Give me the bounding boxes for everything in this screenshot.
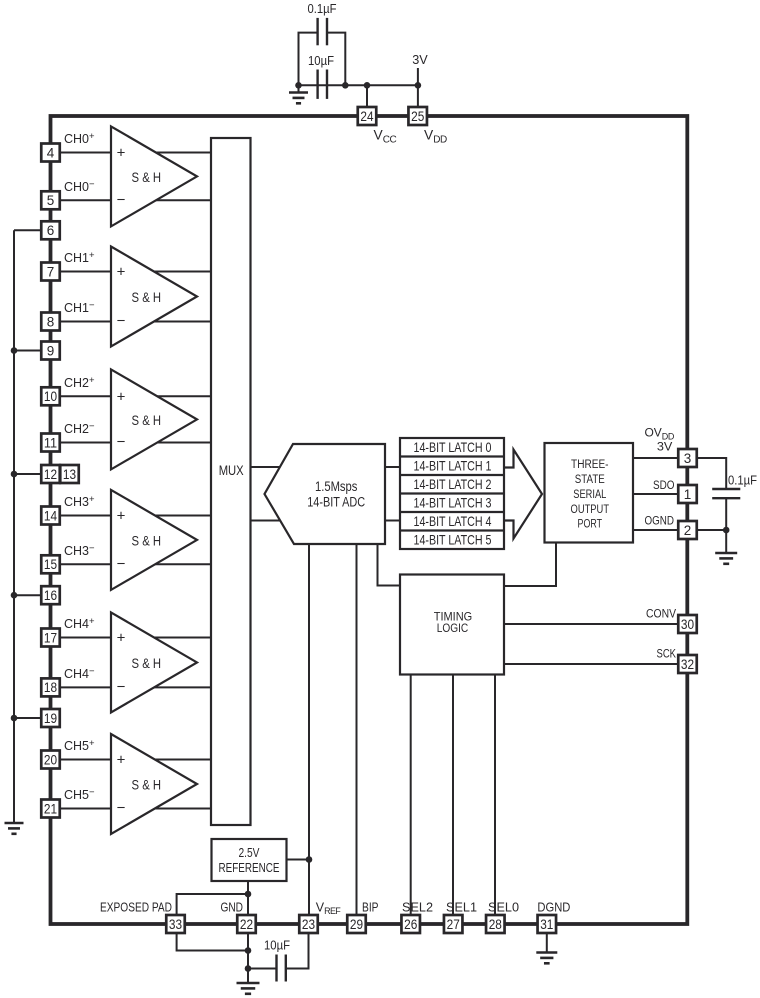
svg-text:13: 13 xyxy=(63,467,76,482)
pin 29 xyxy=(347,915,366,933)
svg-text:EXPOSED PAD: EXPOSED PAD xyxy=(100,901,172,915)
svg-text:14-BIT LATCH 1: 14-BIT LATCH 1 xyxy=(414,458,492,474)
node dot OGND-C3 xyxy=(723,527,730,534)
svg-text:9: 9 xyxy=(47,343,55,358)
MUX block xyxy=(211,138,251,825)
pin 31 xyxy=(538,915,557,933)
svg-text:3V: 3V xyxy=(657,440,673,454)
wire CH0+ output to MUX xyxy=(156,152,211,154)
svg-text:21: 21 xyxy=(44,801,57,816)
svg-text:2.5V: 2.5V xyxy=(239,845,260,860)
node dot VDD xyxy=(415,82,422,89)
svg-text:SEL2: SEL2 xyxy=(402,901,433,915)
wire exposed pad lower loop xyxy=(177,933,248,951)
svg-text:SERIAL: SERIAL xyxy=(573,487,606,501)
svg-text:6: 6 xyxy=(47,223,55,238)
svg-text:STATE: STATE xyxy=(575,472,605,486)
svg-text:25: 25 xyxy=(411,109,424,124)
14-bit latch register stack xyxy=(400,438,504,549)
wire CH1- output to MUX xyxy=(154,321,211,323)
wire rail stub to pin 16 xyxy=(14,594,42,596)
wire MUX to ADC lower xyxy=(251,520,281,522)
wire GND pin down to ground xyxy=(247,933,249,983)
svg-text:−: − xyxy=(117,679,126,696)
wire rail stub to pin 9 xyxy=(14,350,42,352)
wire CH5- input xyxy=(61,808,112,810)
svg-text:−: − xyxy=(117,556,126,573)
wire CH1+ input xyxy=(61,271,112,273)
bus arrow to serial port xyxy=(504,450,542,539)
pin 10 xyxy=(41,387,60,405)
pin 11 xyxy=(41,434,60,452)
svg-text:S & H: S & H xyxy=(132,412,162,428)
wire 0.1uF loop left+top xyxy=(299,33,318,86)
ground G5 (DGND) xyxy=(536,951,557,954)
pin 22 xyxy=(237,915,256,933)
pin 25 xyxy=(408,107,427,125)
wire ADC to BIP pin 29 xyxy=(356,544,358,915)
svg-text:29: 29 xyxy=(350,917,363,932)
node dot rail y=350.5 xyxy=(11,347,18,354)
wire CH3+ output to MUX xyxy=(155,515,211,517)
pin 17 xyxy=(41,629,60,647)
pin 24 xyxy=(358,107,377,125)
svg-text:S & H: S & H xyxy=(132,655,162,671)
svg-text:24: 24 xyxy=(360,109,374,124)
pin 26 xyxy=(401,915,420,933)
svg-text:+: + xyxy=(117,264,126,281)
wire CH2- output to MUX xyxy=(157,442,211,444)
wire CH1- input xyxy=(61,321,112,323)
svg-text:30: 30 xyxy=(681,617,694,632)
node dot ref-gnd loop xyxy=(245,891,252,898)
pin 28 xyxy=(486,915,505,933)
svg-text:14-BIT ADC: 14-BIT ADC xyxy=(307,495,365,510)
wire CH0- output to MUX xyxy=(156,199,211,201)
wire ADC to latch upper xyxy=(385,466,400,468)
svg-text:GND: GND xyxy=(221,901,244,915)
wire port to pin 2 xyxy=(633,529,678,531)
ground G3 (OGND) xyxy=(715,552,737,555)
svg-text:+: + xyxy=(117,145,126,162)
svg-text:7: 7 xyxy=(47,264,55,279)
wire CH4+ input xyxy=(61,637,112,639)
wire pin 2 to C3 node xyxy=(697,529,726,531)
pin 32 xyxy=(678,655,697,673)
wire timing to SEL2 pin 26 xyxy=(410,675,412,916)
pin 19 xyxy=(41,709,60,727)
wire timing to SEL1 pin 27 xyxy=(452,675,454,916)
svg-text:S & H: S & H xyxy=(132,532,162,548)
capacitor C1 0.1uF plates xyxy=(316,18,318,45)
svg-text:14: 14 xyxy=(44,508,58,523)
ADC U1 1.5Msps 14-BIT xyxy=(265,444,386,544)
svg-text:33: 33 xyxy=(169,917,182,932)
wire ADC to timing logic xyxy=(378,544,401,586)
svg-text:OGND: OGND xyxy=(645,514,675,528)
svg-text:−: − xyxy=(117,192,126,209)
pin 15 xyxy=(41,555,60,573)
pin 18 xyxy=(41,678,60,696)
node dot VREF-reference xyxy=(306,856,313,863)
svg-text:−: − xyxy=(117,800,126,817)
S&H amplifier A2 xyxy=(111,369,197,469)
wire CH0+ input xyxy=(61,152,112,154)
svg-text:4: 4 xyxy=(47,145,55,160)
svg-text:+: + xyxy=(117,389,126,406)
pin 3 xyxy=(678,449,697,467)
svg-text:14-BIT LATCH 3: 14-BIT LATCH 3 xyxy=(414,495,492,511)
svg-text:14-BIT LATCH 5: 14-BIT LATCH 5 xyxy=(414,532,492,548)
svg-text:23: 23 xyxy=(302,917,315,932)
pin 8 xyxy=(41,313,60,331)
svg-text:15: 15 xyxy=(44,557,57,572)
svg-text:10µF: 10µF xyxy=(308,54,334,68)
node dot 0.1uF right leg xyxy=(342,82,349,89)
wire CH3+ input xyxy=(61,515,112,517)
wire MUX to ADC upper xyxy=(251,466,281,468)
capacitor C4 10uF plates xyxy=(275,955,277,982)
svg-text:11: 11 xyxy=(44,435,57,450)
wire CH5+ input xyxy=(61,759,112,761)
svg-text:0.1µF: 0.1µF xyxy=(308,2,337,16)
svg-text:31: 31 xyxy=(540,917,553,932)
wire timing to pin 32 xyxy=(504,663,678,665)
svg-text:27: 27 xyxy=(447,917,460,932)
svg-text:−: − xyxy=(117,313,126,330)
svg-text:PORT: PORT xyxy=(578,517,603,531)
wire DGND pin to ground xyxy=(546,933,548,953)
wire CH5- output to MUX xyxy=(155,808,211,810)
svg-text:14-BIT LATCH 0: 14-BIT LATCH 0 xyxy=(414,439,492,455)
wire CH5+ output to MUX xyxy=(155,759,211,761)
wire CH2- input xyxy=(61,442,112,444)
wire timing to pin 30 xyxy=(504,623,678,625)
svg-text:+: + xyxy=(117,630,126,647)
svg-text:0.1µF: 0.1µF xyxy=(728,474,757,488)
wire CH4+ output to MUX xyxy=(154,637,211,639)
wire reference out to VREF net xyxy=(287,859,310,861)
wire reference to GND pin 22 xyxy=(247,881,249,915)
ground G4 (GND pin) xyxy=(237,982,260,985)
wire gnd to C4 xyxy=(248,968,277,970)
wire supply rail 3V (y=85) xyxy=(299,84,418,86)
svg-text:DGND: DGND xyxy=(537,901,570,915)
pin 12 xyxy=(41,465,60,483)
wire CH2+ output to MUX xyxy=(157,395,211,397)
supply 3V stub xyxy=(417,68,419,85)
node dot VCC xyxy=(364,82,371,89)
svg-text:3: 3 xyxy=(684,451,692,466)
capacitor C2 10uF plates xyxy=(316,70,318,99)
svg-text:3V: 3V xyxy=(412,53,428,67)
wire VDD drop xyxy=(417,85,419,107)
wire C4 to VREF pin 23 xyxy=(286,933,309,969)
pin 1 xyxy=(678,485,697,503)
wire ADC to latch lower xyxy=(385,520,400,522)
wire external common rail xyxy=(13,230,15,823)
svg-text:10µF: 10µF xyxy=(264,939,290,953)
svg-text:1.5Msps: 1.5Msps xyxy=(315,479,358,494)
node dot supply-gnd xyxy=(295,82,302,89)
pin 16 xyxy=(41,586,60,604)
wire rail stub to pin 19 xyxy=(14,717,42,719)
svg-text:+: + xyxy=(117,752,126,769)
svg-text:LOGIC: LOGIC xyxy=(437,621,469,635)
pin 7 xyxy=(41,263,60,281)
svg-text:20: 20 xyxy=(44,752,57,767)
svg-text:REFERENCE: REFERENCE xyxy=(219,860,280,875)
pin 13 xyxy=(60,465,79,483)
svg-text:14-BIT LATCH 4: 14-BIT LATCH 4 xyxy=(414,513,492,529)
wire port to timing logic xyxy=(504,543,556,587)
wire pin 3 to C3 xyxy=(697,458,726,488)
three-state serial output port block xyxy=(545,443,634,543)
svg-text:32: 32 xyxy=(681,657,694,672)
svg-text:22: 22 xyxy=(240,917,253,932)
wire CH2+ input xyxy=(61,395,112,397)
wire 0.1uF loop top-right+right xyxy=(327,33,345,86)
IC body outline (chip border) xyxy=(51,116,688,924)
svg-text:S & H: S & H xyxy=(132,289,162,305)
pin 27 xyxy=(444,915,463,933)
svg-text:5: 5 xyxy=(47,193,55,208)
pin 33 xyxy=(166,915,185,933)
wire CH3- output to MUX xyxy=(155,563,211,565)
svg-text:18: 18 xyxy=(44,680,57,695)
svg-text:S & H: S & H xyxy=(132,169,162,185)
svg-text:14-BIT LATCH 2: 14-BIT LATCH 2 xyxy=(414,476,492,492)
pin 30 xyxy=(678,615,697,633)
node dot rail y=718 xyxy=(11,715,18,722)
pin 4 xyxy=(41,144,60,162)
2.5V reference block xyxy=(212,839,287,881)
wire CH4- input xyxy=(61,686,112,688)
pin 21 xyxy=(41,800,60,818)
pin 14 xyxy=(41,507,60,525)
capacitor C3 0.1uF plates xyxy=(712,488,740,490)
svg-text:10: 10 xyxy=(44,389,57,404)
wire port to pin 1 xyxy=(633,493,678,495)
svg-text:SDO: SDO xyxy=(653,478,675,492)
node dot rail y=474 xyxy=(11,471,18,478)
wire CH4- output to MUX xyxy=(154,686,211,688)
wire CH1+ output to MUX xyxy=(154,271,211,273)
ground G1 (supply caps) xyxy=(298,85,300,92)
svg-text:CONV: CONV xyxy=(646,607,676,621)
S&H amplifier A0 xyxy=(111,126,197,226)
S&H amplifier A5 xyxy=(111,734,197,834)
wire VCC drop xyxy=(366,85,368,107)
svg-text:BIP: BIP xyxy=(362,901,379,915)
S&H amplifier A1 xyxy=(111,247,197,347)
svg-text:THREE-: THREE- xyxy=(571,457,609,471)
svg-text:S & H: S & H xyxy=(132,777,162,793)
pin 20 xyxy=(41,751,60,769)
node dot rail y=595.2 xyxy=(11,592,18,599)
wire exposed pad upper loop xyxy=(177,894,248,915)
svg-text:SEL1: SEL1 xyxy=(446,901,477,915)
pin 5 xyxy=(41,191,60,209)
svg-text:OUTPUT: OUTPUT xyxy=(571,502,610,516)
svg-text:−: − xyxy=(117,434,126,451)
pin 23 xyxy=(299,915,318,933)
svg-text:12: 12 xyxy=(44,467,57,482)
wire timing to SEL0 pin 28 xyxy=(494,675,496,916)
wire rail stub to pin 6 xyxy=(14,229,42,231)
wire ADC to VREF pin 23 xyxy=(308,544,310,915)
S&H amplifier A3 xyxy=(111,490,197,590)
svg-text:SEL0: SEL0 xyxy=(488,901,519,915)
node dot gnd loop lower xyxy=(245,947,252,954)
svg-text:17: 17 xyxy=(44,630,57,645)
S&H amplifier A4 xyxy=(111,612,197,712)
wire rail stub to pin 12 xyxy=(14,473,42,475)
svg-text:+: + xyxy=(117,508,126,525)
svg-text:SCK: SCK xyxy=(657,647,677,661)
svg-text:26: 26 xyxy=(404,917,417,932)
svg-text:1: 1 xyxy=(684,487,692,502)
svg-text:16: 16 xyxy=(44,588,57,603)
timing logic block xyxy=(400,575,504,675)
wire C3 to ground xyxy=(725,498,727,553)
pin 6 xyxy=(41,221,60,239)
svg-text:2: 2 xyxy=(684,523,692,538)
wire CH3- input xyxy=(61,563,112,565)
svg-text:MUX: MUX xyxy=(219,463,244,478)
pin 2 xyxy=(678,521,697,539)
svg-text:19: 19 xyxy=(44,711,57,726)
pin 9 xyxy=(41,342,60,360)
wire port to pin 3 xyxy=(633,457,678,459)
svg-text:8: 8 xyxy=(47,314,55,329)
node dot gnd-10uF xyxy=(245,965,252,972)
svg-text:28: 28 xyxy=(489,917,502,932)
ground G2 (channel rail) xyxy=(5,822,24,825)
wire CH0- input xyxy=(61,199,112,201)
